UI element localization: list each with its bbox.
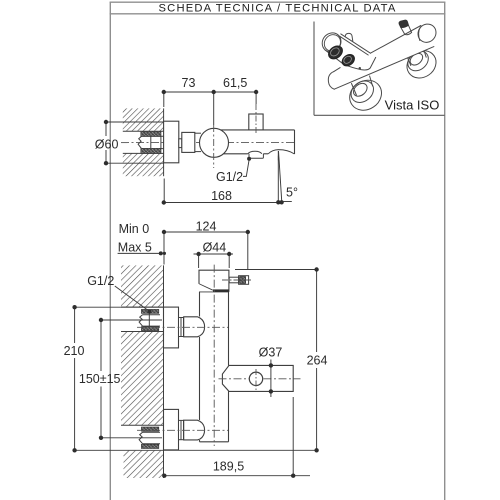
iso box bottom line xyxy=(314,114,445,116)
diverter dark cap xyxy=(399,20,408,27)
title box bottom line xyxy=(110,13,446,15)
shower outlet neck xyxy=(229,277,238,283)
wall hatch bottom block xyxy=(123,153,164,176)
main tube bottom silhouette xyxy=(334,47,434,90)
vertical centerline of knob xyxy=(213,125,215,168)
wall hatch block 3 xyxy=(124,451,164,478)
top outlet square xyxy=(249,114,263,130)
svg-text:Ø44: Ø44 xyxy=(203,241,227,255)
right leg pipe xyxy=(408,51,425,68)
G1/2 leader dot xyxy=(247,157,251,161)
ext line knob center xyxy=(213,92,215,125)
svg-text:168: 168 xyxy=(211,189,232,203)
head chamfer diagonal xyxy=(199,284,213,290)
wall hatch top block xyxy=(123,108,164,131)
right leg flange inner xyxy=(404,47,432,75)
top inlet pipe xyxy=(139,315,160,326)
gasket top xyxy=(141,131,161,136)
5 deg horizontal tick xyxy=(283,201,291,203)
dim 150+-15 xyxy=(100,320,102,371)
main tube top-left stub xyxy=(334,68,340,72)
ext line wall face xyxy=(163,92,165,107)
threaded dark section xyxy=(240,277,246,284)
dim 210 xyxy=(74,307,76,343)
dashed ext to wall xyxy=(163,179,165,203)
dim 264 xyxy=(316,270,318,353)
left knob cap xyxy=(318,29,345,56)
G1/2 leader xyxy=(243,160,249,177)
top inlet ring xyxy=(179,318,184,337)
lever arm xyxy=(222,365,293,391)
dim O44 xyxy=(194,253,234,255)
dim O37 xyxy=(270,360,272,398)
title box top line xyxy=(110,1,446,3)
bottom view dimensions xyxy=(75,232,318,476)
dim 189.5 xyxy=(164,475,310,477)
wall hatch block 2 xyxy=(121,332,164,426)
spout mouth arc xyxy=(268,150,294,154)
stub button on top of knob section xyxy=(345,33,353,41)
main tube left end arc xyxy=(328,72,334,90)
svg-text:G1/2: G1/2 xyxy=(87,274,114,288)
5 deg vertical line xyxy=(277,151,279,202)
ext 189.5 right xyxy=(292,397,294,476)
svg-text:189,5: 189,5 xyxy=(213,460,244,474)
dim O60 ext bottom xyxy=(106,162,164,164)
bottom inlet centerline xyxy=(137,429,228,431)
dim 168 line xyxy=(164,202,282,204)
circle vertical centerline xyxy=(255,369,257,392)
wall hatch block 1 xyxy=(121,265,164,307)
knob section mask xyxy=(323,33,370,69)
channel top edge xyxy=(123,130,164,132)
left leg flange outer xyxy=(344,74,387,116)
arm centerline xyxy=(219,378,301,380)
bump G1/2 under body: arc xyxy=(248,151,262,154)
left page border xyxy=(109,2,111,500)
knob circle xyxy=(200,128,229,157)
left leg cylinder edges xyxy=(352,84,357,96)
arm circle xyxy=(249,372,262,385)
dim dots top xyxy=(162,90,166,94)
panel inner top edge xyxy=(340,36,369,55)
bottom inlet nut xyxy=(184,420,205,440)
bottom inlet gaskets xyxy=(141,427,158,431)
right knob cap xyxy=(414,20,439,46)
svg-text:264: 264 xyxy=(307,354,328,368)
svg-text:Ø37: Ø37 xyxy=(259,346,283,360)
right page border xyxy=(444,2,446,500)
svg-text:G1/2: G1/2 xyxy=(216,170,243,184)
small screw dot xyxy=(359,67,361,69)
left knob cap inner rim xyxy=(321,31,344,54)
gasket bottom xyxy=(141,148,161,153)
axis centerline xyxy=(121,142,296,144)
square centerline xyxy=(255,104,257,134)
diverter knob outline xyxy=(401,27,405,34)
dots O60 xyxy=(104,120,108,124)
channel edges xyxy=(121,306,164,308)
top inlet flange xyxy=(164,307,179,348)
svg-text:Vista ISO: Vista ISO xyxy=(385,97,440,112)
neck lines xyxy=(195,132,201,134)
G1/2 leader xyxy=(115,286,150,327)
left leg pipe xyxy=(351,81,370,99)
iso faucet drawing xyxy=(318,20,441,116)
svg-text:150±15: 150±15 xyxy=(79,372,121,386)
ext line outlet xyxy=(255,92,257,104)
wall face line xyxy=(163,108,165,121)
ext 264 top xyxy=(235,269,318,271)
trim ring band xyxy=(213,289,229,292)
top inlet gaskets xyxy=(141,309,158,313)
bump hanging base xyxy=(249,154,263,158)
body tube xyxy=(220,130,295,154)
knob section bottom silhouette xyxy=(325,50,376,70)
dots 168 xyxy=(162,200,166,204)
svg-text:Ø60: Ø60 xyxy=(95,137,119,151)
svg-text:210: 210 xyxy=(64,344,85,358)
channel bottom edge xyxy=(123,152,164,154)
top inlet nut xyxy=(184,317,205,337)
shower outlet body xyxy=(239,276,249,285)
ring xyxy=(179,139,182,148)
bottom inlet flange xyxy=(164,409,179,450)
5 deg slanted line xyxy=(279,151,282,202)
svg-text:Max 5: Max 5 xyxy=(118,241,152,255)
top view dimensions xyxy=(106,92,292,203)
top pipe centerline xyxy=(102,319,163,321)
ext 264/210 bottom xyxy=(75,449,318,451)
nut xyxy=(182,132,195,152)
body centerline xyxy=(213,265,215,446)
main tube body mask xyxy=(328,26,434,90)
spout tick below xyxy=(277,156,279,161)
iso box left line xyxy=(313,22,315,116)
left leg flange inner xyxy=(347,77,378,107)
dark button 2 xyxy=(340,52,357,68)
svg-text:124: 124 xyxy=(196,220,217,234)
dim 124 line xyxy=(164,231,248,233)
body head xyxy=(199,270,229,292)
dim O60 ext top xyxy=(106,121,164,123)
right knob side arc xyxy=(419,27,421,40)
wall flange xyxy=(164,121,179,163)
svg-text:SCHEDA TECNICA / TECHNICAL DAT: SCHEDA TECNICA / TECHNICAL DATA xyxy=(159,3,397,15)
right leg flange outer xyxy=(402,45,442,83)
bottom inlet ring xyxy=(179,420,184,439)
svg-text:61,5: 61,5 xyxy=(223,76,247,90)
min0 max5 line xyxy=(118,252,165,254)
svg-text:5°: 5° xyxy=(286,186,298,200)
bottom pipe centerline xyxy=(102,437,163,439)
main tube top silhouette xyxy=(370,26,421,54)
dim line 73/61.5 xyxy=(164,91,256,93)
head bottom edge xyxy=(199,291,229,293)
right leg cylinder edges xyxy=(408,58,411,66)
in-wall pipe xyxy=(138,136,164,148)
bottom inlet pipe xyxy=(139,432,160,443)
dim O60 line xyxy=(105,122,107,136)
svg-text:Min 0: Min 0 xyxy=(119,222,150,236)
body column xyxy=(200,292,229,442)
dark button 1 xyxy=(326,43,345,61)
outlet centerline xyxy=(222,279,252,281)
svg-text:73: 73 xyxy=(182,76,196,90)
wall face lines xyxy=(163,265,165,307)
knob section top silhouette xyxy=(341,34,371,53)
top inlet centerline xyxy=(137,326,228,328)
